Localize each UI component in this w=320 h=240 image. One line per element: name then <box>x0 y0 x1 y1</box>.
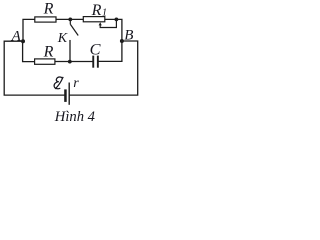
wire: node A up to top-left corner then right to resistor R <box>23 19 35 41</box>
svg-text:r: r <box>73 76 79 91</box>
svg-text:Hình 4: Hình 4 <box>54 109 95 125</box>
wire: switch K lower contact down to middle junction <box>69 41 71 62</box>
rheostat wiper arrowhead <box>99 22 102 25</box>
svg-text:K: K <box>57 31 68 46</box>
label EMF script E (drawn path) <box>54 77 63 89</box>
svg-text:R: R <box>43 44 54 61</box>
wire: top row between R and R1 (through switch junction) <box>56 18 83 20</box>
junction dot: R1 right terminal / wiper tap <box>115 18 119 22</box>
svg-text:B: B <box>124 28 133 44</box>
switch K: top junction dot <box>68 18 72 22</box>
node B dot <box>120 39 124 43</box>
svg-text:R: R <box>43 1 54 18</box>
resistor R (top) <box>35 17 56 22</box>
switch K: open blade diagonal <box>70 24 78 35</box>
wire: middle resistor R left to corner, up to node A <box>23 41 35 61</box>
node A dot <box>21 39 25 43</box>
wire: R1 right terminal to top-right corner then down to node B <box>105 19 122 41</box>
wire: middle row from capacitor left plate to middle resistor R <box>55 61 92 63</box>
wire: node A left to left rail, down, bottom wire to battery negative plate <box>4 41 64 95</box>
capacitor C left plate <box>92 56 94 68</box>
battery: short thick negative plate <box>64 89 67 102</box>
rheostat wiper loop: from top wire dot down, left, up with arrow to body <box>100 20 116 28</box>
capacitor C right plate <box>97 56 99 68</box>
wire: node B down then left to capacitor right plate <box>99 41 122 61</box>
svg-text:A: A <box>11 28 22 44</box>
svg-text:C: C <box>90 39 102 58</box>
middle junction dot (switch bottom) <box>68 60 72 64</box>
resistor R1 (rheostat body) <box>83 17 105 22</box>
switch K: short stub below top dot <box>69 20 71 24</box>
resistor R (middle) <box>35 59 55 64</box>
battery: long thin positive plate <box>69 83 70 105</box>
wire: node B right to right rail, down, bottom wire to battery positive plate <box>70 41 138 95</box>
